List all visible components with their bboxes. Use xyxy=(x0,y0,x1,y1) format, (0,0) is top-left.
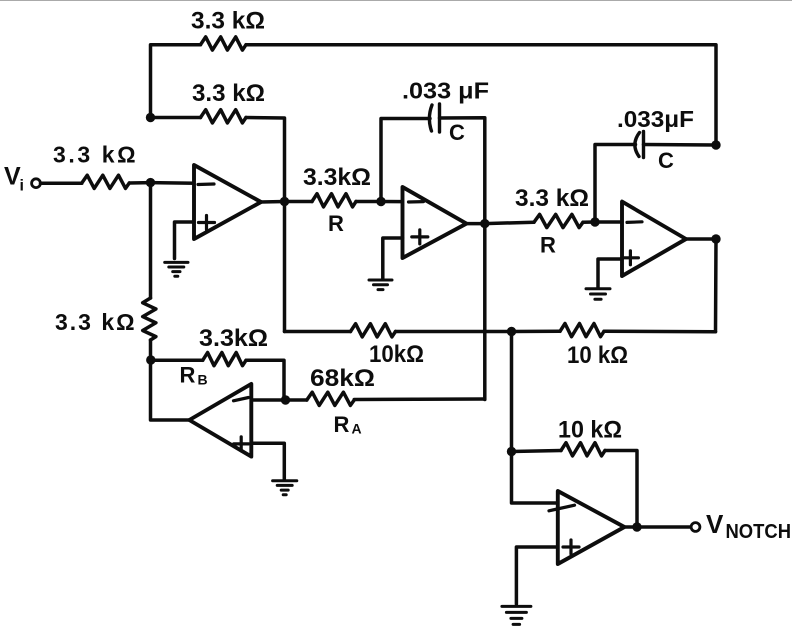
wire to notch terminal xyxy=(637,525,691,529)
wire op-amp4 output to node B xyxy=(151,360,190,420)
wire vertical resistor to node B xyxy=(149,340,153,360)
op-amp U2 minus sign xyxy=(409,200,424,204)
ground op-amp3 xyxy=(586,289,610,300)
op-amp U4 unity inverter xyxy=(189,384,251,457)
node notch summing junction top xyxy=(507,327,516,336)
node cap2 to output column xyxy=(711,140,720,149)
wire op-amp3 output to LP column xyxy=(686,237,716,241)
svg-text:i: i xyxy=(20,178,24,195)
node op-amp2 inverting input xyxy=(376,197,385,206)
svg-text:B: B xyxy=(198,372,208,388)
op-amp U2 first integrator xyxy=(403,187,467,258)
op-amp U5 plus sign xyxy=(563,540,579,554)
op-amp U3 plus sign xyxy=(622,251,638,265)
svg-text:10kΩ: 10kΩ xyxy=(369,341,424,368)
node LP output xyxy=(711,234,720,243)
wire op-amp1 feedback left xyxy=(151,116,201,120)
svg-text:3.3 kΩ: 3.3 kΩ xyxy=(515,185,589,212)
resistor 3.3 kOhm R first integrator input xyxy=(312,194,356,207)
svg-text:R: R xyxy=(334,412,350,437)
wire node down to op-amp5 input xyxy=(512,452,562,504)
wire notch feedback to output xyxy=(605,451,637,528)
svg-text:R: R xyxy=(540,233,556,258)
wire node A to op-amp1 inverting input xyxy=(151,181,215,185)
wire op-amp3 noninverting input to ground xyxy=(598,259,622,288)
wire op-amp1 output xyxy=(261,200,285,204)
svg-text:3.3kΩ: 3.3kΩ xyxy=(199,325,268,352)
input terminal Vi xyxy=(32,179,41,188)
ground op-amp4 xyxy=(273,481,297,495)
resistor 10 kOhm notch feedback xyxy=(561,443,605,456)
svg-text:3.3 kΩ: 3.3 kΩ xyxy=(191,8,265,35)
svg-text:3.3 kΩ: 3.3 kΩ xyxy=(55,309,137,335)
wire op-amp4 noninverting input to ground xyxy=(251,443,284,479)
svg-text:3.3kΩ: 3.3kΩ xyxy=(303,164,371,191)
resistor RA 68 kOhm xyxy=(307,392,354,405)
wire RA to BP column xyxy=(354,397,485,401)
svg-text:10 kΩ: 10 kΩ xyxy=(558,417,622,444)
wire RB to op-amp4 inverting node xyxy=(246,360,284,400)
op-amp U5 notch summer xyxy=(558,491,625,564)
wire node to RA xyxy=(286,398,307,402)
scan edge artifact top xyxy=(0,0,792,2)
wire node B to RB xyxy=(151,359,203,363)
svg-text:NOTCH: NOTCH xyxy=(726,521,792,543)
svg-text:3.3 kΩ: 3.3 kΩ xyxy=(192,80,265,107)
ground op-amp5 xyxy=(502,606,531,624)
node A summing junction xyxy=(146,178,155,187)
op-amp U2 plus sign xyxy=(412,230,428,244)
output terminal Vnotch xyxy=(691,523,700,532)
resistor RB 3.3 kOhm inverter feedback xyxy=(203,353,246,366)
wire BP node to resistor R2 xyxy=(485,222,534,223)
op-amp U1 plus sign xyxy=(199,216,215,230)
svg-text:10 kΩ: 10 kΩ xyxy=(567,342,628,369)
wire HP to 10k resistor xyxy=(285,330,351,334)
wire BP output down to RA xyxy=(483,224,487,400)
wire top feedback from summing node to LP output xyxy=(151,45,201,118)
node feedback junction on summing input xyxy=(146,113,155,122)
op-amp U4 plus sign xyxy=(234,437,249,451)
resistor 10 kOhm from HP xyxy=(351,324,396,337)
wire capacitor C to op-amp2 output vertical xyxy=(440,118,485,224)
wire capacitor C2 to LP output vertical xyxy=(644,143,717,147)
svg-text:C: C xyxy=(658,148,674,173)
resistor 3.3 kOhm op-amp1 feedback xyxy=(201,110,247,123)
svg-text:A: A xyxy=(352,421,362,437)
resistor 3.3 kOhm input xyxy=(82,175,130,188)
node B inverter output node xyxy=(146,355,155,364)
node BP output xyxy=(480,219,489,228)
resistor 3.3 kOhm top feedback xyxy=(201,37,247,50)
wire op-amp3 input node up to capacitor C2 xyxy=(595,145,636,223)
svg-text:3.3 kΩ: 3.3 kΩ xyxy=(53,142,138,168)
op-amp U1 minus sign xyxy=(198,182,214,186)
wire 10k to notch summing node xyxy=(396,330,512,334)
wire op-amp2 input node up to capacitor C xyxy=(381,119,430,202)
svg-text:C: C xyxy=(449,120,465,145)
wire op-amp5 noninverting input to ground xyxy=(516,547,557,604)
ground op-amp2 xyxy=(369,280,392,290)
resistor 3.3 kOhm summing from inverter xyxy=(143,298,156,340)
node notch output xyxy=(632,522,641,531)
op-amp U3 minus sign xyxy=(627,220,642,224)
wire LP column down to 10k xyxy=(714,239,718,332)
op-amp U1 summing amplifier xyxy=(194,165,261,239)
op-amp U5 minus sign xyxy=(549,505,575,511)
wire notch node to second 10k xyxy=(512,330,561,334)
wire HP node down to 10k xyxy=(283,202,287,332)
wire op-amp1 noninverting input to ground xyxy=(175,222,195,259)
node op-amp4 inverting input xyxy=(281,395,290,404)
node notch feedback junction xyxy=(507,447,516,456)
op-amp U3 second integrator xyxy=(622,202,686,276)
wire input to resistor xyxy=(41,181,82,185)
wire top feedback right segment xyxy=(246,45,716,145)
capacitor C second integrator .033uF xyxy=(635,133,640,157)
op-amp U4 minus sign xyxy=(234,398,249,401)
wire notch node down xyxy=(510,332,514,452)
wire resistor R to op-amp2 input node xyxy=(356,200,381,204)
wire op-amp2 output xyxy=(466,222,484,226)
ground op-amp1 xyxy=(165,262,188,276)
svg-text:V: V xyxy=(706,509,724,539)
wire op-amp1 feedback to output node xyxy=(246,118,285,202)
svg-text:R: R xyxy=(328,211,344,236)
wire op-amp5 output xyxy=(624,525,637,529)
resistor 10 kOhm from LP xyxy=(560,324,604,337)
svg-text:R: R xyxy=(180,363,196,388)
wire op-amp4 inverting input xyxy=(251,398,285,402)
node HP output xyxy=(280,197,289,206)
wire node to op-amp3 inverting input xyxy=(595,220,641,224)
svg-text:68kΩ: 68kΩ xyxy=(310,365,375,392)
wire node A down to vertical resistor xyxy=(149,183,153,298)
wire HP node to resistor R xyxy=(285,200,313,204)
svg-text:.033μF: .033μF xyxy=(617,106,694,132)
wire input resistor to node A xyxy=(129,181,150,185)
node op-amp3 inverting input xyxy=(590,217,599,226)
wire notch feedback left xyxy=(512,451,562,452)
resistor 3.3 kOhm R second integrator input xyxy=(534,214,583,227)
wire 10k to LP column xyxy=(604,330,716,334)
wire resistor R2 to op-amp3 input node xyxy=(583,220,595,224)
wire node to op-amp2 inverting input xyxy=(381,200,423,204)
svg-text:.033 μF: .033 μF xyxy=(402,78,489,104)
capacitor C first integrator .033uF xyxy=(429,105,432,131)
wire op-amp2 noninverting input to ground xyxy=(383,238,403,279)
svg-text:V: V xyxy=(4,163,21,191)
